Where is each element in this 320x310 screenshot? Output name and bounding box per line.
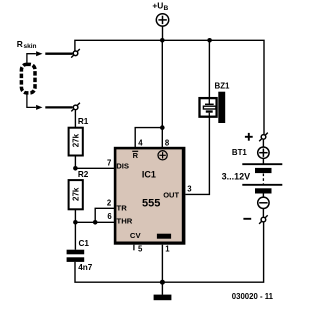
wire plates to minus circle <box>262 193 264 198</box>
pin 5 stub <box>133 245 135 251</box>
wire plus circle to plates <box>262 158 264 164</box>
IC U1: timer IC1 555 <box>107 138 192 282</box>
svg-text:IC1: IC1 <box>142 169 156 179</box>
svg-text:3: 3 <box>187 185 192 194</box>
svg-text:3...12V: 3...12V <box>222 172 251 182</box>
svg-text:6: 6 <box>107 212 112 221</box>
minus sign <box>243 218 251 220</box>
node B junction R2/THR/C1 <box>73 220 78 225</box>
capacitor C1 <box>67 239 93 272</box>
skin resistance dashed outline <box>21 64 35 93</box>
terminal top electrode <box>71 49 80 58</box>
svg-text:5: 5 <box>138 245 143 254</box>
svg-text:OUT: OUT <box>163 191 179 200</box>
wire node B to pin 6 THR <box>75 221 114 223</box>
pin 1 wire to ground rail <box>161 245 163 283</box>
svg-text:BT1: BT1 <box>232 148 248 157</box>
probe arrow top <box>36 51 42 56</box>
wire minus circle to terminal <box>262 208 264 217</box>
wire pin 3 OUT to buzzer <box>185 117 209 194</box>
wire to pin 4 <box>135 128 162 148</box>
wire top probe thick lead <box>45 53 72 55</box>
svg-text:BZ1: BZ1 <box>215 82 231 91</box>
wire rail down to IC pins 8 and 4 <box>161 40 163 147</box>
wire C1 to ground rail <box>75 222 264 282</box>
node junction on rail above IC <box>160 38 165 43</box>
node junction TR branch <box>93 220 98 225</box>
wire bottom probe stub <box>27 93 36 107</box>
svg-text:4n7: 4n7 <box>78 263 93 272</box>
supply circle symbol pin8 <box>158 151 167 160</box>
svg-text:7: 7 <box>107 158 111 167</box>
plus circle <box>258 147 269 158</box>
node junction on rail above buzzer <box>207 38 212 43</box>
svg-text:27k: 27k <box>72 133 81 147</box>
minus circle <box>258 197 269 208</box>
pin1 internal ground bar <box>157 234 171 239</box>
dashed link <box>262 174 264 184</box>
svg-text:B: B <box>164 5 169 12</box>
supply symbol +UB <box>152 1 168 41</box>
label Rskin <box>17 39 37 50</box>
wire R2 to node B <box>74 209 76 222</box>
battery cell 1 <box>242 163 282 165</box>
svg-text:+U: +U <box>152 1 163 11</box>
svg-text:R: R <box>17 39 23 49</box>
svg-text:R1: R1 <box>78 117 89 126</box>
plus sign <box>245 136 253 138</box>
svg-text:030020 - 11: 030020 - 11 <box>232 292 274 301</box>
svg-text:THR: THR <box>117 216 133 225</box>
wire terminal to R1 <box>74 110 76 128</box>
node A junction R1/R2/DIS <box>73 166 78 171</box>
wire node A to pin 7 DIS <box>75 167 114 169</box>
svg-text:1: 1 <box>165 245 170 254</box>
svg-text:TR: TR <box>117 204 128 213</box>
svg-text:R2: R2 <box>78 170 89 179</box>
wire R1 to node A <box>74 156 76 169</box>
svg-text:DIS: DIS <box>116 161 129 170</box>
svg-text:skin: skin <box>24 43 37 50</box>
battery BT1 <box>222 133 283 224</box>
terminal minus electrode <box>259 215 268 224</box>
wire terminal to plus circle <box>262 140 264 148</box>
wire bottom probe thick lead <box>45 106 72 108</box>
ground <box>154 282 172 300</box>
wire TR branch to pin 2 <box>95 208 114 222</box>
node junction ground rail / pin 1 <box>160 280 165 285</box>
svg-text:27k: 27k <box>72 187 81 201</box>
terminal bottom electrode <box>71 103 80 112</box>
resistor R2 <box>69 170 89 209</box>
battery cell 2 <box>242 184 282 186</box>
terminal plus electrode <box>259 133 268 142</box>
svg-text:CV: CV <box>130 231 142 240</box>
wire top probe stub <box>27 54 36 64</box>
wire top supply rail <box>75 40 264 134</box>
svg-text:R: R <box>133 151 139 160</box>
svg-text:555: 555 <box>142 197 160 209</box>
svg-text:4: 4 <box>138 138 143 147</box>
svg-text:8: 8 <box>165 138 170 147</box>
svg-text:2: 2 <box>107 198 112 207</box>
node junction pin4 branch <box>160 125 165 130</box>
resistor R1 <box>69 117 89 156</box>
wire rail to buzzer <box>208 40 210 97</box>
probe arrow bottom <box>36 105 42 110</box>
svg-text:C1: C1 <box>79 239 90 248</box>
wire node B to C1 <box>74 222 76 249</box>
buzzer BZ1 <box>200 82 231 123</box>
